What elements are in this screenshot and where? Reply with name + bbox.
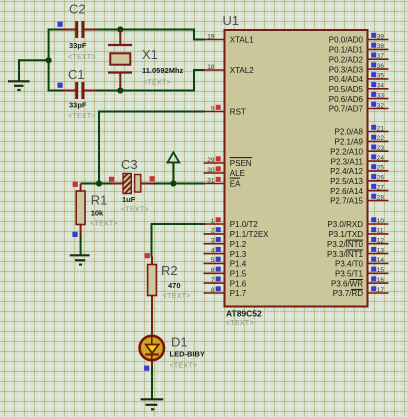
svg-text:11: 11 xyxy=(377,228,384,235)
LED D1 xyxy=(140,336,164,360)
pin 31 EA xyxy=(204,177,242,189)
svg-text:<TEXT>: <TEXT> xyxy=(226,320,254,327)
R2 top pin state square xyxy=(145,253,150,258)
svg-text:P3.4/T0: P3.4/T0 xyxy=(335,260,364,269)
svg-text:P3.3/INT1: P3.3/INT1 xyxy=(327,250,364,259)
value label TEXT xyxy=(170,362,198,369)
value label 33pF xyxy=(69,41,87,50)
pin 5 P1.4 xyxy=(204,257,247,269)
pin 11 P3.1/TXD xyxy=(328,227,388,239)
svg-text:10k: 10k xyxy=(91,209,104,218)
pin 3 P1.2 xyxy=(204,237,247,249)
pin 32 P0.7/AD7 xyxy=(329,102,389,114)
svg-text:5: 5 xyxy=(211,257,215,264)
svg-text:X1: X1 xyxy=(142,47,158,62)
svg-text:<TEXT>: <TEXT> xyxy=(68,113,96,120)
svg-text:10: 10 xyxy=(377,218,385,225)
svg-text:34: 34 xyxy=(377,83,385,90)
wire XTAL1 net: C2 right lead to chip pin 19 xyxy=(84,29,205,40)
pin 15 P3.5/T1 xyxy=(335,267,389,279)
IC U1 AT89C52 body xyxy=(225,30,368,307)
svg-text:P2.3/A11: P2.3/A11 xyxy=(331,157,364,166)
svg-text:D1: D1 xyxy=(171,335,188,350)
svg-text:18: 18 xyxy=(207,64,215,71)
svg-text:P0.5/AD5: P0.5/AD5 xyxy=(329,85,364,94)
svg-text:35: 35 xyxy=(377,73,385,80)
R1 top pin state square xyxy=(73,182,78,187)
pin 27 P2.6/A14 xyxy=(330,184,388,196)
svg-text:4: 4 xyxy=(211,247,215,254)
value label 33pF xyxy=(69,101,87,110)
svg-text:6: 6 xyxy=(211,267,215,274)
svg-text:21: 21 xyxy=(377,125,385,132)
pin 37 P0.2/AD2 xyxy=(329,53,389,65)
svg-text:EA: EA xyxy=(230,180,241,189)
svg-text:P0.4/AD4: P0.4/AD4 xyxy=(329,75,364,84)
value label AT89C52 xyxy=(226,309,262,319)
value label TEXT xyxy=(121,207,149,214)
pin 30 ALE xyxy=(204,166,245,178)
svg-text:470: 470 xyxy=(168,281,181,290)
svg-text:38: 38 xyxy=(377,43,385,50)
svg-text:P3.2/INT0: P3.2/INT0 xyxy=(327,240,364,249)
node junction power arrow xyxy=(170,180,176,186)
svg-text:17: 17 xyxy=(377,287,385,294)
svg-text:23: 23 xyxy=(377,145,385,152)
D1 cathode pin state square xyxy=(144,366,149,371)
value label 470 xyxy=(168,281,181,290)
svg-text:XTAL1: XTAL1 xyxy=(230,36,254,45)
svg-text:39: 39 xyxy=(377,33,385,40)
crystal X1 xyxy=(108,30,132,91)
pin 33 P0.6/AD6 xyxy=(329,92,389,104)
wire left vertical bus (C2 to C1) xyxy=(48,29,50,92)
pin 26 P2.5/A13 xyxy=(330,174,388,186)
svg-text:22: 22 xyxy=(377,135,385,142)
resistor R1 xyxy=(76,184,85,236)
pin 24 P2.3/A11 xyxy=(331,154,389,166)
svg-text:9: 9 xyxy=(211,105,215,112)
pin 39 P0.0/AD0 xyxy=(329,33,389,45)
ground top-left xyxy=(8,59,30,90)
svg-text:36: 36 xyxy=(377,63,385,70)
capacitor C1 label xyxy=(68,67,85,82)
svg-text:33pF: 33pF xyxy=(69,101,87,110)
C1 pin state square xyxy=(58,83,63,88)
svg-text:P3.7/RD: P3.7/RD xyxy=(333,289,363,298)
pin 14 P3.4/T0 xyxy=(335,257,389,269)
pin 4 P1.3 xyxy=(204,247,247,259)
svg-text:<TEXT>: <TEXT> xyxy=(121,207,149,214)
C2 pin state square xyxy=(58,22,63,27)
wire P1.0 net: chip pin 1 to R2 xyxy=(152,223,206,257)
resistor R2 label xyxy=(161,263,178,278)
svg-text:15: 15 xyxy=(377,267,385,274)
wire ground branch xyxy=(18,59,49,61)
svg-text:XTAL2: XTAL2 xyxy=(230,66,254,75)
svg-text:P1.4: P1.4 xyxy=(230,260,247,269)
svg-text:P2.4/A12: P2.4/A12 xyxy=(330,167,363,176)
svg-text:P0.1/AD1: P0.1/AD1 xyxy=(329,46,364,55)
pin 34 P0.5/AD5 xyxy=(329,82,389,94)
svg-text:24: 24 xyxy=(377,155,385,162)
pin 9 RST xyxy=(204,105,246,117)
svg-text:P1.7: P1.7 xyxy=(230,289,247,298)
svg-text:1uF: 1uF xyxy=(122,195,136,204)
svg-text:P3.5/T1: P3.5/T1 xyxy=(335,270,364,279)
svg-text:33pF: 33pF xyxy=(69,41,87,50)
R1 bottom pin state square xyxy=(72,232,77,237)
svg-text:1: 1 xyxy=(211,218,215,225)
svg-text:P1.2: P1.2 xyxy=(230,240,247,249)
pin 19 XTAL1 xyxy=(204,33,255,44)
pin 16 P3.6/WR xyxy=(331,276,389,288)
svg-text:P2.1/A9: P2.1/A9 xyxy=(335,138,364,147)
svg-text:P2.6/A14: P2.6/A14 xyxy=(330,187,363,196)
value label 10k xyxy=(91,209,104,218)
svg-text:26: 26 xyxy=(377,175,385,182)
svg-text:C3: C3 xyxy=(121,157,138,172)
svg-text:P0.0/AD0: P0.0/AD0 xyxy=(329,36,364,45)
svg-text:R2: R2 xyxy=(161,263,178,278)
svg-text:<TEXT>: <TEXT> xyxy=(90,220,118,227)
pin 21 P2.0/A8 xyxy=(335,125,389,137)
C3 left pin state square xyxy=(109,177,114,182)
svg-text:P2.7/A15: P2.7/A15 xyxy=(330,197,363,206)
value label TEXT xyxy=(163,293,191,300)
svg-text:C1: C1 xyxy=(68,67,85,82)
svg-text:P2.0/A8: P2.0/A8 xyxy=(335,128,364,137)
svg-text:U1: U1 xyxy=(223,13,240,28)
ground under D1 xyxy=(141,399,164,409)
pin 38 P0.1/AD1 xyxy=(329,43,389,55)
ground under R1 xyxy=(70,255,90,264)
node junction at bus/ground xyxy=(46,57,52,63)
svg-text:P3.1/TXD: P3.1/TXD xyxy=(328,230,363,239)
value label TEXT xyxy=(143,80,171,87)
pin 8 P1.7 xyxy=(204,286,247,298)
pin 17 P3.7/RD xyxy=(333,286,389,298)
value label LED-BIBY xyxy=(170,350,205,359)
value label TEXT xyxy=(90,220,118,227)
wire RST net: chip pin 9 to corner xyxy=(99,111,205,185)
pin 23 P2.2/A10 xyxy=(330,145,388,157)
svg-text:33: 33 xyxy=(377,92,385,99)
svg-text:19: 19 xyxy=(207,33,215,40)
chip U1 label xyxy=(223,13,240,28)
svg-text:<TEXT>: <TEXT> xyxy=(163,293,191,300)
C3 right pin state square xyxy=(150,176,155,181)
wire R2 to D1 xyxy=(151,296,153,337)
pin 12 P3.2/INT0 xyxy=(327,237,389,249)
node junction crystal bottom xyxy=(117,87,123,93)
svg-text:31: 31 xyxy=(207,177,215,184)
svg-text:P1.5: P1.5 xyxy=(230,270,247,279)
pin 18 XTAL2 xyxy=(204,64,255,75)
svg-text:P2.2/A10: P2.2/A10 xyxy=(330,147,363,156)
wire XTAL2 net: C1 to chip pin 18 xyxy=(48,69,205,92)
svg-text:P1.1/T2EX: P1.1/T2EX xyxy=(230,230,269,239)
svg-text:P2.5/A13: P2.5/A13 xyxy=(330,177,363,186)
LED D1 label xyxy=(171,335,188,350)
svg-text:<TEXT>: <TEXT> xyxy=(68,54,96,61)
pin 7 P1.6 xyxy=(204,276,247,288)
svg-text:2: 2 xyxy=(211,228,215,235)
svg-text:P3.0/RXD: P3.0/RXD xyxy=(327,220,363,229)
crystal X1 label xyxy=(142,47,158,62)
svg-text:P0.2/AD2: P0.2/AD2 xyxy=(329,55,364,64)
svg-text:P1.3: P1.3 xyxy=(230,250,247,259)
resistor R1 label xyxy=(91,193,108,208)
svg-text:P0.3/AD3: P0.3/AD3 xyxy=(329,65,364,74)
svg-text:<TEXT>: <TEXT> xyxy=(170,362,198,369)
pin 6 P1.5 xyxy=(204,267,247,279)
pin 36 P0.3/AD3 xyxy=(329,62,389,74)
wire C2 left to vertical bus xyxy=(48,29,76,31)
capacitor C1 xyxy=(62,82,97,99)
pin 2 P1.1/T2EX xyxy=(204,227,270,239)
wire D1 to ground xyxy=(151,360,153,399)
pin 22 P2.1/A9 xyxy=(335,135,389,147)
svg-text:P0.6/AD6: P0.6/AD6 xyxy=(329,95,364,104)
svg-text:P1.6: P1.6 xyxy=(230,279,247,288)
svg-text:AT89C52: AT89C52 xyxy=(226,309,262,319)
pin 1 P1.0/T2 xyxy=(204,217,259,229)
svg-text:PSEN: PSEN xyxy=(230,159,252,168)
svg-text:27: 27 xyxy=(377,184,385,191)
pin 29 PSEN xyxy=(204,156,253,168)
node junction RST/C3 xyxy=(96,180,102,186)
svg-text:14: 14 xyxy=(377,257,385,264)
svg-text:3: 3 xyxy=(211,238,215,245)
wire EA/C3/R1 net xyxy=(81,183,205,185)
value label TEXT xyxy=(226,320,254,327)
capacitor C2 xyxy=(62,21,97,38)
pin 10 P3.0/RXD xyxy=(327,217,388,229)
svg-text:ALE: ALE xyxy=(230,169,245,178)
svg-text:11.0592Mhz: 11.0592Mhz xyxy=(142,66,184,75)
svg-text:28: 28 xyxy=(377,194,385,201)
pin 35 P0.4/AD4 xyxy=(329,72,389,84)
svg-text:30: 30 xyxy=(207,167,215,174)
svg-text:R1: R1 xyxy=(91,193,108,208)
svg-text:37: 37 xyxy=(377,53,385,60)
svg-text:25: 25 xyxy=(377,165,385,172)
pin 13 P3.3/INT1 xyxy=(327,247,389,259)
svg-text:P1.0/T2: P1.0/T2 xyxy=(230,220,259,229)
svg-text:P3.6/WR: P3.6/WR xyxy=(331,279,363,288)
pin 25 P2.4/A12 xyxy=(330,164,388,176)
svg-text:29: 29 xyxy=(207,157,215,164)
value label 1uF xyxy=(122,195,136,204)
node junction crystal top xyxy=(117,26,123,32)
svg-text:32: 32 xyxy=(377,102,385,109)
svg-text:13: 13 xyxy=(377,247,385,254)
svg-text:<TEXT>: <TEXT> xyxy=(143,80,171,87)
capacitor C3 label xyxy=(121,157,138,172)
resistor R2 xyxy=(148,257,157,296)
svg-text:C2: C2 xyxy=(69,2,86,17)
svg-text:8: 8 xyxy=(211,287,215,294)
pin 28 P2.7/A15 xyxy=(330,194,388,206)
svg-text:7: 7 xyxy=(211,277,215,284)
power VCC arrow terminal xyxy=(168,152,180,184)
svg-text:RST: RST xyxy=(230,108,246,117)
value label TEXT xyxy=(68,54,96,61)
capacitor C2 label xyxy=(69,2,86,17)
value label 11.0592Mhz xyxy=(142,66,184,75)
value label TEXT xyxy=(68,113,96,120)
svg-text:LED-BIBY: LED-BIBY xyxy=(170,350,205,359)
svg-text:P0.7/AD7: P0.7/AD7 xyxy=(329,105,364,114)
wire R1 to ground xyxy=(80,235,82,256)
svg-text:16: 16 xyxy=(377,277,385,284)
svg-text:12: 12 xyxy=(377,238,385,245)
